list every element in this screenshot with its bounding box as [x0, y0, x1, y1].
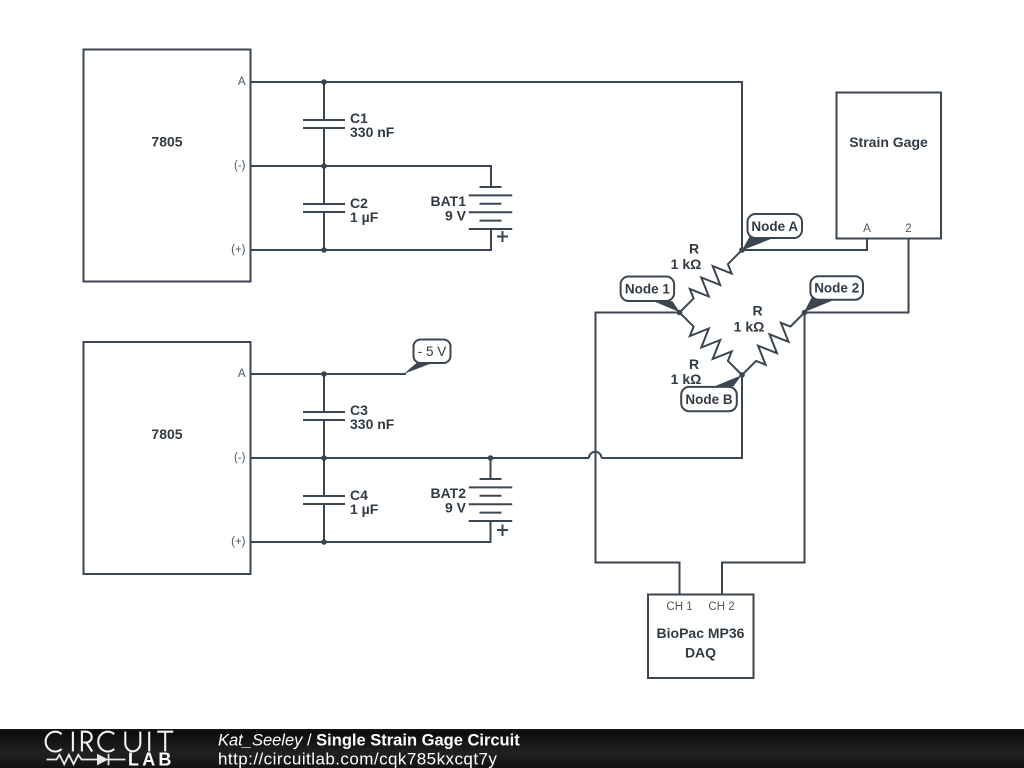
junction dot C1 top rail	[321, 79, 327, 85]
wire gage.A to node A	[742, 239, 867, 251]
svg-text:330 nF: 330 nF	[350, 416, 395, 432]
svg-text:1 kΩ: 1 kΩ	[671, 371, 702, 387]
flag -5V	[404, 363, 431, 374]
wire BAT2 top stub	[490, 458, 492, 479]
svg-text:A: A	[238, 76, 246, 88]
node 1 junction dot	[677, 310, 683, 316]
junction dot C4 bottom rail	[321, 539, 327, 545]
svg-text:7805: 7805	[151, 426, 182, 442]
svg-text:R: R	[689, 241, 699, 257]
svg-text:Strain Gage: Strain Gage	[849, 134, 928, 150]
regulator U2 7805	[84, 342, 251, 574]
wire U1.(+) to BAT1 bottom	[251, 229, 492, 250]
battery BAT2	[469, 479, 513, 521]
plus sign BAT2	[497, 525, 508, 537]
svg-text:1 µF: 1 µF	[350, 209, 379, 225]
strain gage box	[837, 93, 942, 239]
capacitor C2	[303, 166, 345, 250]
svg-text:Kat_Seeley / Single Strain Gag: Kat_Seeley / Single Strain Gage Circuit	[218, 732, 520, 750]
svg-text:9 V: 9 V	[445, 500, 467, 516]
svg-text:1 µF: 1 µF	[350, 501, 379, 517]
wire U1.A to node A vertical	[251, 82, 743, 250]
hop over node-1 wire	[589, 452, 602, 458]
wire U2.(-) rail to node B leg, with hop at x=595	[251, 457, 590, 459]
svg-text:Node B: Node B	[685, 392, 733, 407]
wire U2.A to -5V flag	[251, 373, 407, 375]
node label Node 1	[651, 300, 680, 312]
node A junction dot	[739, 247, 745, 253]
svg-text:1 kΩ: 1 kΩ	[734, 319, 765, 335]
svg-text:DAQ: DAQ	[685, 645, 716, 661]
svg-text:(+): (+)	[231, 244, 246, 256]
svg-text:(-): (-)	[234, 160, 246, 172]
resistor R (nodeB-node2)	[742, 313, 805, 376]
svg-text:R: R	[752, 303, 762, 319]
node B junction dot	[739, 372, 745, 378]
logo resistor-diode glyph	[47, 754, 126, 765]
svg-text:330 nF: 330 nF	[350, 124, 395, 140]
junction dot C3 top rail	[321, 371, 327, 377]
svg-text:BioPac MP36: BioPac MP36	[657, 625, 745, 641]
svg-text:7805: 7805	[151, 134, 182, 150]
logo CIRCUIT strokes	[46, 732, 174, 752]
node label Node 2	[804, 298, 833, 313]
node label Node A	[742, 237, 772, 251]
svg-text:R: R	[689, 356, 699, 372]
svg-text:CH 2: CH 2	[708, 601, 734, 613]
junction dot C3/C4 mid rail	[321, 455, 327, 461]
DAQ box BioPac	[648, 595, 754, 679]
resistor R (node1-nodeA)	[680, 250, 743, 313]
wire U2.(+) to BAT2 bottom	[251, 521, 491, 542]
svg-text:(-): (-)	[234, 452, 246, 464]
capacitor C1	[303, 82, 345, 166]
wire gage.2 to node 2	[805, 239, 909, 313]
svg-text:A: A	[863, 223, 871, 235]
plus sign BAT1	[497, 231, 508, 242]
svg-text:Node 2: Node 2	[814, 281, 859, 296]
svg-text:2: 2	[905, 223, 911, 235]
wire node1 to DAQ CH1	[596, 313, 680, 595]
junction dot C2 bottom rail	[321, 247, 327, 253]
svg-text:LAB: LAB	[128, 750, 175, 768]
battery BAT1	[469, 187, 513, 229]
capacitor C3	[303, 374, 345, 458]
capacitor C4	[303, 458, 345, 542]
regulator U1 7805	[84, 50, 251, 282]
resistor R (node1-nodeB)	[680, 313, 743, 376]
node 2 junction dot	[802, 310, 808, 316]
junction dot BAT2 top	[488, 455, 494, 461]
svg-text:http://circuitlab.com/cqk785kx: http://circuitlab.com/cqk785kxcqt7y	[218, 750, 497, 768]
svg-text:Node A: Node A	[751, 219, 798, 234]
wire U1.(-) to BAT1	[251, 166, 492, 187]
svg-text:- 5 V: - 5 V	[418, 344, 447, 359]
junction dot C1/C2 mid rail	[321, 163, 327, 169]
svg-text:Node 1: Node 1	[625, 282, 671, 297]
wire node2 to DAQ CH2	[722, 313, 805, 595]
svg-text:CH 1: CH 1	[666, 601, 692, 613]
svg-text:A: A	[238, 368, 246, 380]
svg-text:9 V: 9 V	[445, 208, 467, 224]
node label Node B	[714, 375, 742, 386]
svg-text:1 kΩ: 1 kΩ	[671, 256, 702, 272]
svg-text:(+): (+)	[231, 536, 246, 548]
